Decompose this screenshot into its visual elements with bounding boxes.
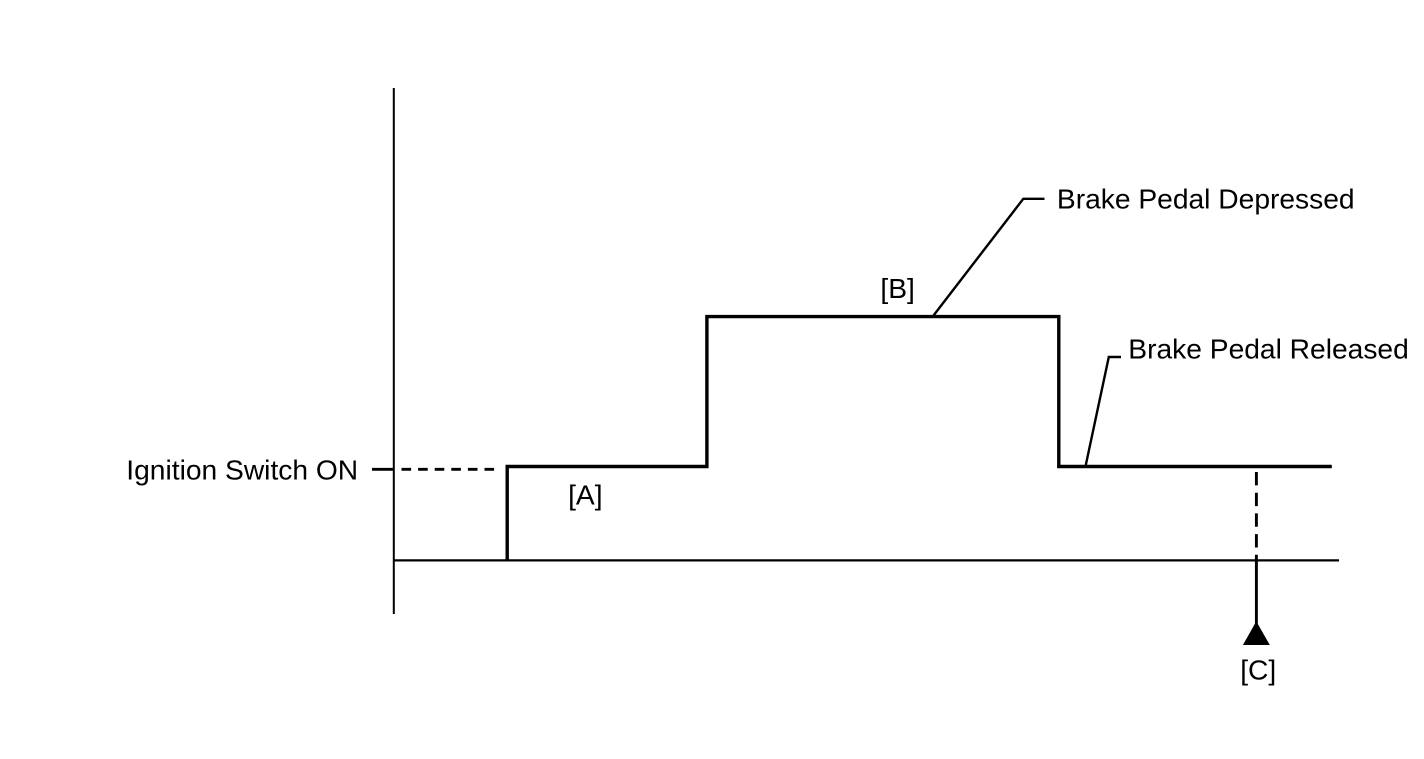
level tick left of axis <box>372 468 394 471</box>
svg-text:[C]: [C] <box>1240 654 1276 686</box>
dashed level line from axis to waveform <box>402 468 497 471</box>
pointer line to Brake Pedal Released label <box>1086 357 1121 465</box>
solid marker line below axis at time C <box>1255 562 1258 624</box>
pointer line to Brake Pedal Depressed label <box>934 199 1045 316</box>
arrowhead triangle at time C <box>1243 621 1270 645</box>
signal waveform <box>507 317 1332 562</box>
svg-text:[B]: [B] <box>880 272 914 304</box>
svg-text:[A]: [A] <box>568 479 602 511</box>
vertical axis <box>393 88 395 614</box>
dashed marker line at time C <box>1255 472 1258 560</box>
svg-text:Ignition Switch ON: Ignition Switch ON <box>126 454 358 486</box>
horizontal axis (time baseline) <box>393 559 1339 561</box>
svg-text:Brake Pedal Released: Brake Pedal Released <box>1128 333 1409 365</box>
svg-text:Brake Pedal Depressed: Brake Pedal Depressed <box>1057 182 1355 214</box>
